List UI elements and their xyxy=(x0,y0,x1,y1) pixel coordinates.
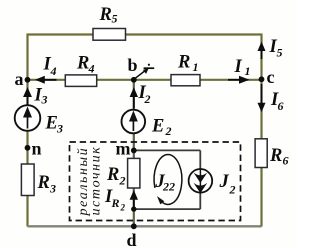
wire bottom xyxy=(28,225,262,227)
svg-text:6: 6 xyxy=(278,99,284,113)
svg-text:R: R xyxy=(111,196,120,210)
svg-text:n: n xyxy=(32,139,42,159)
arrow I2 xyxy=(133,90,135,109)
wire inner loop right xyxy=(199,150,201,209)
svg-text:d: d xyxy=(127,230,137,248)
svg-text:2: 2 xyxy=(144,92,151,106)
svg-text:R: R xyxy=(106,165,119,185)
resistor R3 xyxy=(21,164,34,196)
svg-text:5: 5 xyxy=(112,12,118,26)
resistor R6 xyxy=(255,139,267,168)
node c xyxy=(259,76,265,82)
svg-text:m: m xyxy=(116,139,131,159)
svg-text:E: E xyxy=(45,114,58,134)
node n xyxy=(25,145,31,151)
svg-text:5: 5 xyxy=(277,46,283,60)
svg-text:1: 1 xyxy=(193,60,199,74)
arrow IR2 xyxy=(133,193,135,209)
source E3 xyxy=(15,105,41,131)
svg-text:1: 1 xyxy=(245,64,251,78)
svg-text:2: 2 xyxy=(229,183,236,197)
dashed box real source xyxy=(70,142,241,221)
svg-text:E: E xyxy=(151,117,164,137)
svg-text:R: R xyxy=(269,146,282,166)
svg-text:R: R xyxy=(76,54,89,74)
svg-text:3: 3 xyxy=(41,93,48,107)
svg-text:3: 3 xyxy=(49,182,56,196)
wire top xyxy=(28,33,262,35)
wire middle vertical b-E2-m-R2-d xyxy=(133,80,135,227)
source E2 xyxy=(122,110,146,134)
svg-text:b: b xyxy=(128,55,138,75)
wire middle horizontal a-b-c xyxy=(28,79,262,81)
svg-text:I: I xyxy=(234,57,243,77)
arrow I1 xyxy=(228,79,242,81)
svg-text:c: c xyxy=(267,67,275,87)
svg-text:R: R xyxy=(37,173,50,193)
svg-text:2: 2 xyxy=(120,203,126,213)
resistor R5 xyxy=(93,29,126,41)
resistor R2 xyxy=(128,158,140,188)
svg-text:22: 22 xyxy=(162,180,175,194)
resistor R1 xyxy=(171,75,200,86)
svg-text:2: 2 xyxy=(119,174,126,188)
svg-text:6: 6 xyxy=(283,154,289,168)
svg-text:4: 4 xyxy=(88,62,95,76)
current source J2 xyxy=(189,169,213,193)
node d xyxy=(131,223,137,229)
arrow I3 xyxy=(27,90,29,105)
svg-text:источник: источник xyxy=(88,146,103,216)
svg-text:J: J xyxy=(219,172,230,192)
svg-text:R: R xyxy=(177,53,190,73)
wire inner loop bottom xyxy=(134,208,201,210)
arrow at node b potential marker xyxy=(135,69,147,78)
svg-text:R: R xyxy=(99,5,112,25)
junction inner loop xyxy=(131,206,136,211)
svg-text:2: 2 xyxy=(165,124,172,138)
mesh current J22 xyxy=(154,154,182,204)
arrow I4 xyxy=(38,79,57,81)
resistor R4 xyxy=(65,75,96,87)
node m xyxy=(131,148,137,154)
arrow I6 xyxy=(261,84,263,105)
svg-text:4: 4 xyxy=(50,64,57,78)
node a xyxy=(25,77,31,83)
wire right vertical xyxy=(260,34,262,227)
wire inner loop top xyxy=(134,149,201,151)
svg-text:3: 3 xyxy=(56,122,63,136)
arrow I5 xyxy=(261,45,263,59)
svg-text:a: a xyxy=(15,69,24,89)
wire left vertical xyxy=(26,34,28,227)
node b xyxy=(131,77,137,83)
